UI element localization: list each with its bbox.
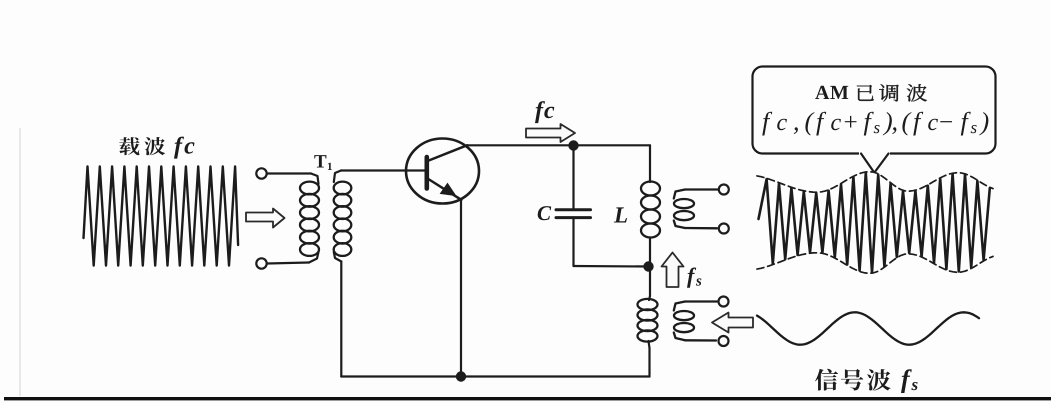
lower output terminal top	[719, 297, 729, 307]
carrier input label 载波 fc	[119, 137, 194, 159]
junction node: tank bottom	[643, 261, 653, 271]
bottom border rule	[4, 397, 1051, 400]
callout formula	[762, 112, 988, 136]
lower transformer primary winding	[638, 296, 658, 348]
capacitor C plates	[556, 210, 591, 218]
T1 primary top terminal	[256, 168, 266, 178]
callout title: AM 已调波	[815, 86, 848, 99]
bottom rail	[341, 375, 649, 377]
emitter arrowhead	[441, 184, 456, 196]
wire: node down to lower transformer	[649, 267, 651, 297]
wire: collector to top rail	[467, 144, 650, 146]
AM modulated waveform with envelope	[759, 173, 990, 273]
wire: top rail down to L	[649, 145, 651, 182]
transistor Q1 (NPN)	[406, 139, 479, 204]
wire: lower primary to bottom rail	[648, 348, 650, 377]
wire: T1 secondary to transistor base	[341, 169, 426, 171]
transformer T1 label	[314, 155, 326, 167]
wire: emitter down	[460, 200, 462, 377]
junction node: emitter / bottom rail	[456, 371, 466, 381]
T1 secondary winding	[334, 171, 352, 262]
upper output terminal bottom	[719, 224, 729, 234]
carrier waveform fc	[84, 167, 239, 266]
label fs	[687, 268, 696, 288]
emitter stroke	[428, 179, 462, 200]
faint page fold line	[19, 128, 21, 396]
wire: node to capacitor	[572, 150, 574, 208]
signal sine wave fs	[757, 312, 979, 344]
label L	[614, 207, 627, 222]
wire: L to tank bottom node	[649, 238, 651, 263]
wire: T1 secondary bottom lead	[340, 262, 342, 377]
arrow: signal into lower winding	[712, 313, 753, 333]
arrow fs upward	[662, 253, 684, 288]
label C	[538, 206, 552, 220]
lower output winding (signal input)	[674, 302, 717, 341]
junction node: top rail / capacitor	[568, 140, 578, 150]
collector stroke	[428, 145, 468, 161]
T1 primary winding	[300, 174, 319, 263]
upper output terminal top	[719, 185, 729, 195]
label fc on top rail	[535, 101, 554, 123]
wire: tank bottom	[574, 265, 649, 268]
arrow fc along top rail	[526, 124, 575, 142]
wire: capacitor to tank bottom	[572, 219, 574, 266]
upper output winding	[674, 190, 718, 229]
base bar	[424, 157, 429, 189]
wire: top terminal to T1 primary	[267, 172, 311, 174]
input arrow (carrier into T1)	[246, 209, 285, 228]
lower output terminal bottom	[719, 336, 729, 346]
signal label 信号波 fs	[815, 369, 918, 393]
wire: T1 primary to bottom terminal	[267, 263, 309, 264]
callout balloon: AM output	[753, 67, 996, 172]
T1 primary bottom terminal	[256, 258, 266, 268]
inductor L winding	[641, 182, 660, 196]
